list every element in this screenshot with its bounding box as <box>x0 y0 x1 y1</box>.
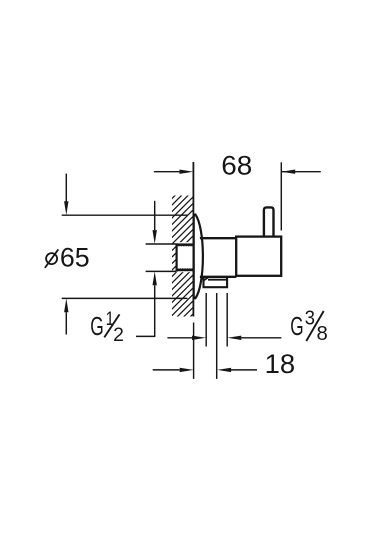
svg-text:65: 65 <box>60 242 90 272</box>
svg-text:G: G <box>290 313 303 341</box>
svg-text:8: 8 <box>317 323 328 345</box>
svg-text:2: 2 <box>113 325 124 346</box>
svg-text:3: 3 <box>305 308 315 330</box>
svg-text:68: 68 <box>221 151 252 181</box>
svg-text:G: G <box>90 313 104 341</box>
svg-text:18: 18 <box>265 349 296 379</box>
